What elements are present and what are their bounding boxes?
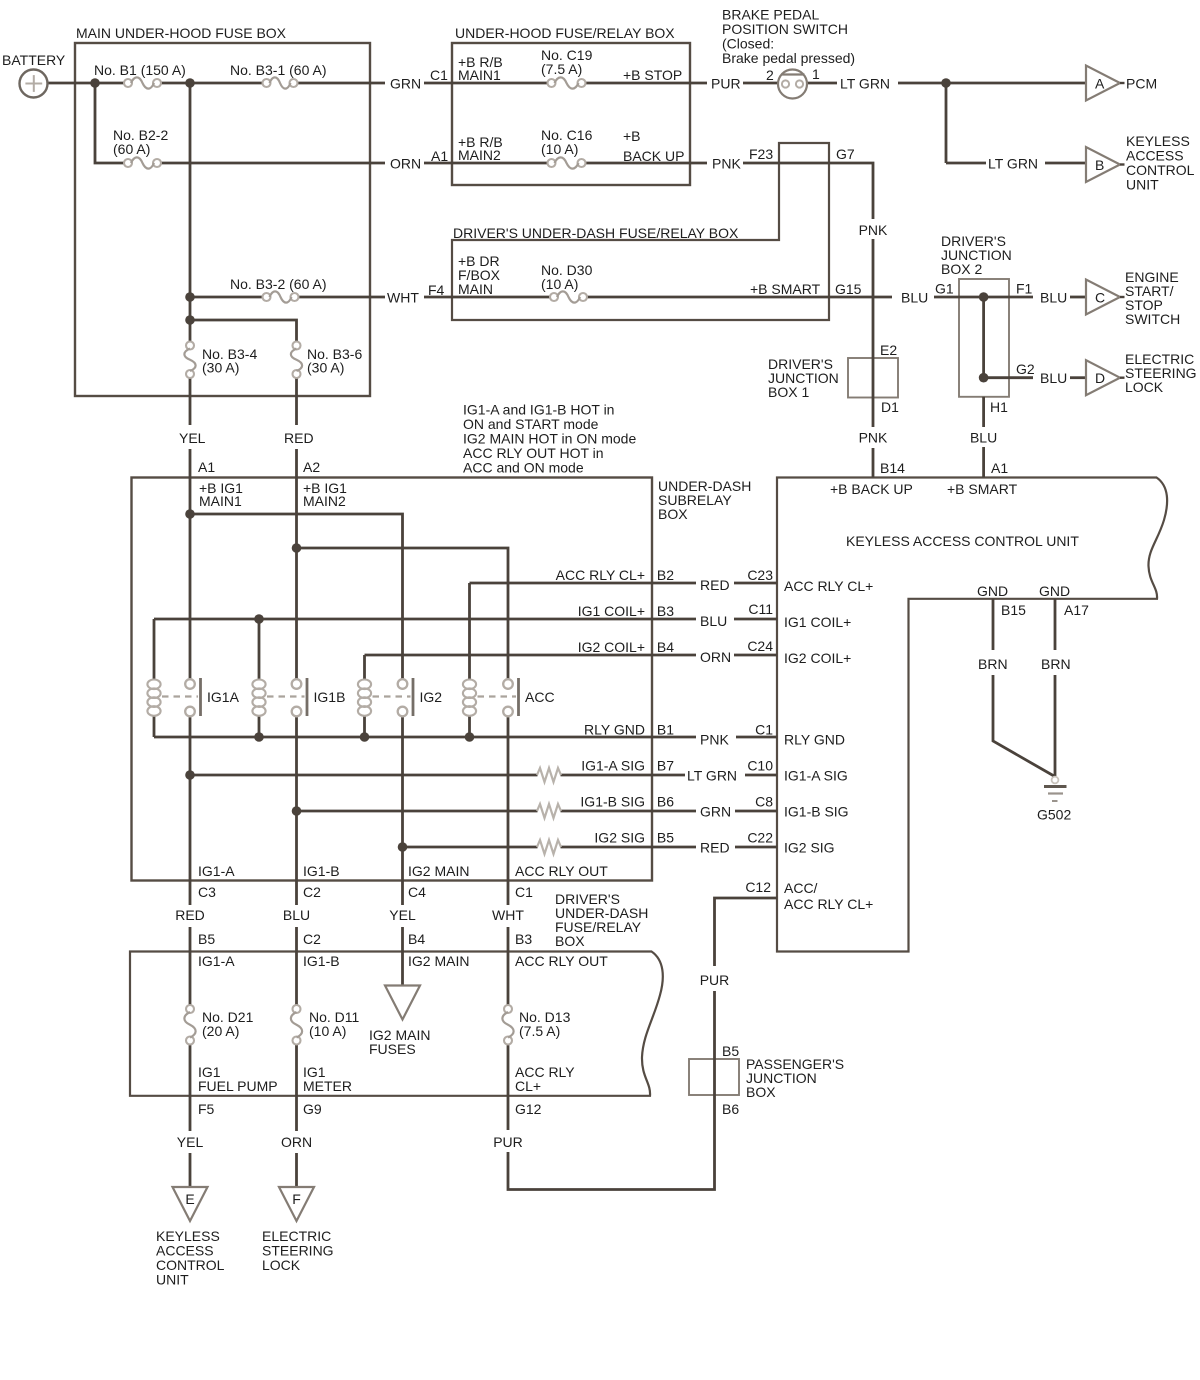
svg-text:IG1-A SIG: IG1-A SIG <box>784 768 848 784</box>
svg-text:(30 A): (30 A) <box>307 360 344 376</box>
svg-text:BLU: BLU <box>970 430 997 446</box>
svg-text:IG2 COIL+: IG2 COIL+ <box>578 639 645 655</box>
svg-text:B4: B4 <box>408 931 425 947</box>
svg-text:A: A <box>1095 76 1105 92</box>
svg-text:RLY GND: RLY GND <box>784 732 845 748</box>
svg-text:ACC: ACC <box>525 689 555 705</box>
svg-text:ACC RLY OUT: ACC RLY OUT <box>515 863 608 879</box>
svg-text:B7: B7 <box>657 758 674 774</box>
svg-text:LT GRN: LT GRN <box>840 76 890 92</box>
svg-text:MAIN1: MAIN1 <box>458 67 501 83</box>
svg-text:UNIT: UNIT <box>1126 177 1159 193</box>
svg-text:YEL: YEL <box>179 430 206 446</box>
svg-text:UNIT: UNIT <box>156 1272 189 1288</box>
svg-text:LT GRN: LT GRN <box>687 768 737 784</box>
svg-text:BOX: BOX <box>746 1084 776 1100</box>
svg-text:MAIN: MAIN <box>458 281 493 297</box>
svg-text:MAIN UNDER-HOOD FUSE BOX: MAIN UNDER-HOOD FUSE BOX <box>76 25 287 41</box>
svg-text:BLU: BLU <box>1040 370 1067 386</box>
svg-text:YEL: YEL <box>389 907 416 923</box>
svg-text:C23: C23 <box>747 567 773 583</box>
svg-text:C1: C1 <box>430 67 448 83</box>
svg-text:IG1 COIL+: IG1 COIL+ <box>784 614 851 630</box>
svg-text:B3: B3 <box>515 931 532 947</box>
svg-text:+B BACK UP: +B BACK UP <box>830 481 913 497</box>
svg-text:D: D <box>1095 370 1105 386</box>
svg-text:G9: G9 <box>303 1101 322 1117</box>
svg-text:C2: C2 <box>303 884 321 900</box>
svg-text:BLU: BLU <box>1040 290 1067 306</box>
svg-text:IG1B: IG1B <box>314 689 346 705</box>
svg-text:CL+: CL+ <box>515 1078 541 1094</box>
svg-text:E2: E2 <box>880 342 897 358</box>
svg-text:ORN: ORN <box>281 1134 312 1150</box>
svg-text:BRN: BRN <box>1041 656 1071 672</box>
svg-text:ACC RLY OUT: ACC RLY OUT <box>515 953 608 969</box>
svg-text:BACK UP: BACK UP <box>623 148 684 164</box>
svg-text:+B SMART: +B SMART <box>947 481 1018 497</box>
svg-text:F: F <box>292 1191 301 1207</box>
svg-text:GRN: GRN <box>390 76 421 92</box>
svg-text:RED: RED <box>284 430 314 446</box>
svg-text:BOX: BOX <box>658 506 688 522</box>
svg-text:IG1A: IG1A <box>207 689 240 705</box>
svg-text:GND: GND <box>977 583 1008 599</box>
svg-text:IG1-A SIG: IG1-A SIG <box>581 758 645 774</box>
svg-text:(7.5 A): (7.5 A) <box>541 61 582 77</box>
svg-text:F5: F5 <box>198 1101 215 1117</box>
svg-text:BOX 2: BOX 2 <box>941 261 982 277</box>
svg-text:MAIN2: MAIN2 <box>303 493 346 509</box>
svg-text:BOX: BOX <box>555 933 585 949</box>
svg-text:A1: A1 <box>198 459 215 475</box>
svg-text:C2: C2 <box>303 931 321 947</box>
svg-text:FUSES: FUSES <box>369 1041 416 1057</box>
svg-text:2: 2 <box>766 67 774 83</box>
svg-text:(10 A): (10 A) <box>541 276 578 292</box>
svg-text:UNDER-HOOD FUSE/RELAY BOX: UNDER-HOOD FUSE/RELAY BOX <box>455 25 675 41</box>
svg-text:G1: G1 <box>935 281 954 297</box>
svg-text:C22: C22 <box>747 830 773 846</box>
svg-text:Brake pedal pressed): Brake pedal pressed) <box>722 50 855 66</box>
svg-text:ACC RLY CL+: ACC RLY CL+ <box>556 567 645 583</box>
svg-text:LOCK: LOCK <box>262 1257 301 1273</box>
svg-text:PNK: PNK <box>859 430 888 446</box>
svg-text:A1: A1 <box>991 460 1008 476</box>
svg-text:B4: B4 <box>657 639 674 655</box>
svg-text:(7.5 A): (7.5 A) <box>519 1023 560 1039</box>
svg-text:RED: RED <box>700 840 730 856</box>
svg-text:C24: C24 <box>747 638 773 654</box>
svg-text:A17: A17 <box>1064 602 1089 618</box>
svg-text:B5: B5 <box>657 830 674 846</box>
svg-text:FUEL PUMP: FUEL PUMP <box>198 1078 278 1094</box>
svg-text:No. B3-1 (60 A): No. B3-1 (60 A) <box>230 62 327 78</box>
svg-text:PUR: PUR <box>700 972 730 988</box>
svg-text:GND: GND <box>1039 583 1070 599</box>
svg-text:B3: B3 <box>657 603 674 619</box>
svg-text:C4: C4 <box>408 884 426 900</box>
svg-text:ACC RLY CL+: ACC RLY CL+ <box>784 578 873 594</box>
svg-text:C8: C8 <box>755 794 773 810</box>
svg-text:PNK: PNK <box>700 732 729 748</box>
svg-text:PUR: PUR <box>711 76 741 92</box>
svg-text:(10 A): (10 A) <box>309 1023 346 1039</box>
svg-text:+B STOP: +B STOP <box>623 67 682 83</box>
svg-text:H1: H1 <box>990 399 1008 415</box>
svg-text:SWITCH: SWITCH <box>1125 311 1180 327</box>
svg-text:METER: METER <box>303 1078 352 1094</box>
svg-text:G2: G2 <box>1016 361 1035 377</box>
svg-text:B6: B6 <box>722 1101 739 1117</box>
svg-text:IG2: IG2 <box>420 689 443 705</box>
svg-text:BOX 1: BOX 1 <box>768 384 809 400</box>
svg-text:C12: C12 <box>745 879 771 895</box>
svg-text:BLU: BLU <box>283 907 310 923</box>
svg-text:B1: B1 <box>657 722 674 738</box>
svg-text:(10 A): (10 A) <box>541 141 578 157</box>
svg-text:PCM: PCM <box>1126 76 1157 92</box>
svg-text:1: 1 <box>812 66 820 82</box>
svg-text:PNK: PNK <box>859 222 888 238</box>
svg-text:IG1-B: IG1-B <box>303 863 340 879</box>
svg-text:G12: G12 <box>515 1101 542 1117</box>
svg-text:BRN: BRN <box>978 656 1008 672</box>
svg-text:LT GRN: LT GRN <box>988 156 1038 172</box>
svg-text:C1: C1 <box>515 884 533 900</box>
svg-text:ACC/: ACC/ <box>784 880 818 896</box>
svg-text:IG2 SIG: IG2 SIG <box>594 830 645 846</box>
svg-text:IG1-B: IG1-B <box>303 953 340 969</box>
svg-text:MAIN2: MAIN2 <box>458 147 501 163</box>
svg-text:C11: C11 <box>748 601 773 617</box>
svg-text:WHT: WHT <box>492 907 524 923</box>
svg-text:IG1-A: IG1-A <box>198 953 235 969</box>
svg-text:(60 A): (60 A) <box>113 141 150 157</box>
svg-text:BATTERY: BATTERY <box>2 52 66 68</box>
svg-text:ORN: ORN <box>700 649 731 665</box>
svg-text:IG1-A: IG1-A <box>198 863 235 879</box>
svg-text:IG2 SIG: IG2 SIG <box>784 840 835 856</box>
svg-text:B: B <box>1095 157 1104 173</box>
svg-text:DRIVER'S UNDER-DASH FUSE/RELAY: DRIVER'S UNDER-DASH FUSE/RELAY BOX <box>453 225 739 241</box>
svg-text:BLU: BLU <box>901 290 928 306</box>
svg-text:+B: +B <box>623 128 641 144</box>
svg-text:WHT: WHT <box>387 290 419 306</box>
svg-text:(30 A): (30 A) <box>202 360 239 376</box>
svg-text:B15: B15 <box>1001 602 1026 618</box>
svg-text:C: C <box>1095 290 1105 306</box>
svg-text:IG2 COIL+: IG2 COIL+ <box>784 650 851 666</box>
svg-text:ACC RLY CL+: ACC RLY CL+ <box>784 896 873 912</box>
svg-text:MAIN1: MAIN1 <box>199 493 242 509</box>
svg-text:F4: F4 <box>428 282 445 298</box>
svg-text:E: E <box>185 1191 194 1207</box>
svg-text:IG1-B SIG: IG1-B SIG <box>784 804 849 820</box>
svg-text:ACC and ON mode: ACC and ON mode <box>463 460 584 476</box>
svg-text:B2: B2 <box>657 567 674 583</box>
svg-text:LOCK: LOCK <box>1125 379 1164 395</box>
svg-text:C10: C10 <box>747 758 773 774</box>
svg-text:A1: A1 <box>431 148 448 164</box>
svg-text:BLU: BLU <box>700 613 727 629</box>
svg-text:IG2 MAIN: IG2 MAIN <box>408 863 469 879</box>
svg-text:C3: C3 <box>198 884 216 900</box>
svg-text:D1: D1 <box>881 399 899 415</box>
svg-text:G15: G15 <box>835 281 862 297</box>
svg-text:GRN: GRN <box>700 804 731 820</box>
svg-text:F1: F1 <box>1016 281 1033 297</box>
svg-text:RLY GND: RLY GND <box>584 722 645 738</box>
svg-text:YEL: YEL <box>177 1134 204 1150</box>
svg-text:No. B3-2 (60 A): No. B3-2 (60 A) <box>230 276 327 292</box>
svg-text:IG1 COIL+: IG1 COIL+ <box>578 603 645 619</box>
svg-text:B6: B6 <box>657 794 674 810</box>
svg-text:PUR: PUR <box>493 1134 523 1150</box>
svg-text:B14: B14 <box>880 460 905 476</box>
svg-text:G502: G502 <box>1037 807 1071 823</box>
svg-text:G7: G7 <box>836 146 855 162</box>
svg-text:ORN: ORN <box>390 156 421 172</box>
svg-text:KEYLESS ACCESS CONTROL UNIT: KEYLESS ACCESS CONTROL UNIT <box>846 533 1079 549</box>
svg-text:PNK: PNK <box>712 156 741 172</box>
svg-text:F23: F23 <box>749 146 773 162</box>
svg-text:RED: RED <box>700 577 730 593</box>
svg-text:C1: C1 <box>755 722 773 738</box>
svg-text:IG1-B SIG: IG1-B SIG <box>580 794 645 810</box>
svg-text:IG2 MAIN: IG2 MAIN <box>408 953 469 969</box>
svg-text:B5: B5 <box>198 931 215 947</box>
svg-text:RED: RED <box>175 907 205 923</box>
svg-text:A2: A2 <box>303 459 320 475</box>
svg-text:+B SMART: +B SMART <box>750 281 821 297</box>
svg-text:B5: B5 <box>722 1043 739 1059</box>
svg-text:(20 A): (20 A) <box>202 1023 239 1039</box>
svg-text:No. B1 (150 A): No. B1 (150 A) <box>94 62 186 78</box>
